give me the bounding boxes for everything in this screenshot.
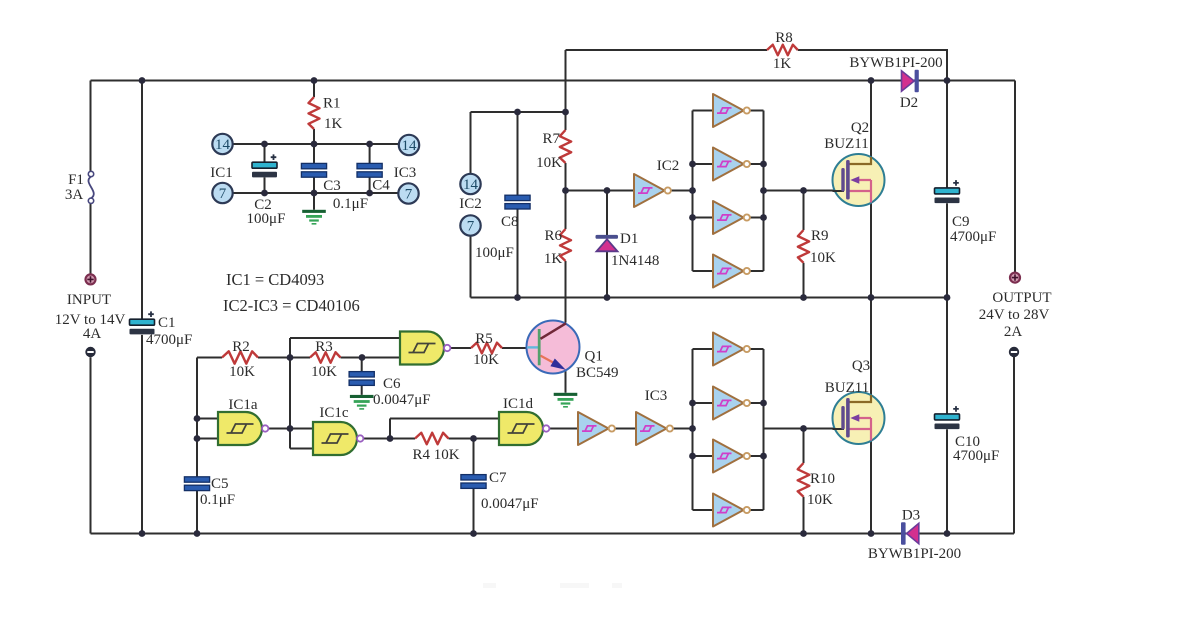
svg-text:R4 10K: R4 10K	[412, 447, 459, 463]
svg-text:Q1: Q1	[585, 349, 603, 365]
svg-text:R10: R10	[810, 471, 835, 487]
svg-text:10K: 10K	[229, 364, 255, 380]
svg-text:BC549: BC549	[576, 365, 619, 381]
svg-text:R1: R1	[323, 96, 341, 112]
svg-text:24V to 28V: 24V to 28V	[979, 307, 1050, 323]
svg-text:C8: C8	[501, 214, 519, 230]
svg-text:F1: F1	[68, 172, 84, 188]
svg-text:R6: R6	[544, 228, 562, 244]
svg-text:10K: 10K	[810, 250, 836, 266]
svg-text:IC3: IC3	[394, 165, 417, 181]
svg-text:C6: C6	[383, 376, 401, 392]
svg-text:IC1c: IC1c	[319, 405, 349, 421]
svg-text:10K: 10K	[807, 492, 833, 508]
svg-text:IC1 = CD4093: IC1 = CD4093	[226, 270, 324, 289]
svg-text:100μF: 100μF	[475, 245, 514, 261]
svg-text:0.0047μF: 0.0047μF	[373, 392, 431, 408]
svg-text:0.0047μF: 0.0047μF	[481, 496, 539, 512]
svg-text:1K: 1K	[544, 251, 563, 267]
svg-text:R5: R5	[475, 331, 493, 347]
svg-text:4700μF: 4700μF	[950, 229, 996, 245]
svg-text:10K: 10K	[536, 155, 562, 171]
svg-text:IC2: IC2	[459, 196, 482, 212]
svg-text:R9: R9	[811, 228, 829, 244]
svg-text:D3: D3	[902, 508, 920, 524]
svg-text:3A: 3A	[65, 187, 84, 203]
svg-text:D1: D1	[620, 231, 638, 247]
svg-text:R8: R8	[775, 30, 793, 46]
svg-text:4700μF: 4700μF	[146, 332, 192, 348]
svg-text:INPUT: INPUT	[67, 292, 111, 308]
svg-text:IC2-IC3 = CD40106: IC2-IC3 = CD40106	[223, 296, 360, 315]
svg-text:IC1: IC1	[210, 165, 233, 181]
svg-text:1N4148: 1N4148	[611, 253, 659, 269]
svg-text:4A: 4A	[83, 326, 102, 342]
svg-text:BYWB1PI-200: BYWB1PI-200	[849, 55, 942, 71]
svg-text:0.1μF: 0.1μF	[200, 492, 235, 508]
svg-text:OUTPUT: OUTPUT	[992, 290, 1051, 306]
svg-text:1K: 1K	[324, 116, 343, 132]
svg-text:IC2: IC2	[657, 158, 680, 174]
svg-text:IC1a: IC1a	[228, 397, 258, 413]
svg-text:0.1μF: 0.1μF	[333, 196, 368, 212]
svg-text:BUZ11: BUZ11	[825, 380, 869, 396]
svg-text:IC3: IC3	[645, 388, 668, 404]
svg-text:14: 14	[215, 137, 231, 153]
svg-text:R2: R2	[232, 339, 250, 355]
svg-text:10K: 10K	[311, 364, 337, 380]
svg-text:C4: C4	[372, 178, 390, 194]
svg-text:BYWB1PI-200: BYWB1PI-200	[868, 546, 961, 562]
svg-text:14: 14	[463, 177, 479, 193]
svg-text:7: 7	[405, 187, 413, 203]
svg-text:IC1d: IC1d	[503, 396, 534, 412]
svg-text:BUZ11: BUZ11	[824, 136, 868, 152]
svg-text:Q2: Q2	[851, 120, 869, 136]
svg-text:R3: R3	[315, 339, 333, 355]
svg-text:4700μF: 4700μF	[953, 448, 999, 464]
svg-text:14: 14	[402, 138, 418, 154]
svg-text:7: 7	[219, 186, 227, 202]
svg-text:1K: 1K	[773, 56, 792, 72]
svg-text:Q3: Q3	[852, 358, 870, 374]
svg-text:C1: C1	[158, 315, 176, 331]
svg-text:100μF: 100μF	[247, 211, 286, 227]
svg-text:7: 7	[467, 219, 475, 235]
svg-text:C5: C5	[211, 476, 229, 492]
svg-text:D2: D2	[900, 95, 918, 111]
svg-text:C9: C9	[952, 214, 970, 230]
svg-text:C3: C3	[323, 178, 341, 194]
svg-text:10K: 10K	[473, 352, 499, 368]
svg-text:C7: C7	[489, 470, 507, 486]
svg-text:R7: R7	[542, 131, 560, 147]
svg-text:2A: 2A	[1004, 324, 1023, 340]
